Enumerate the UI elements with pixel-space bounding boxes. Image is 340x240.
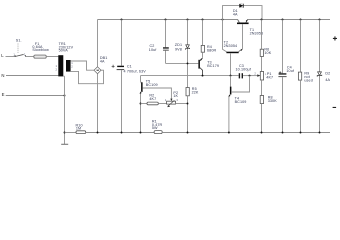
wire earth branch from transformer [63, 76, 64, 144]
capacitor C1 4700uf 63V [112, 20, 147, 133]
resistor R5 22K [186, 87, 199, 132]
wire bridge minus down to bottom rail [97, 74, 99, 133]
svg-text:2N3054: 2N3054 [224, 44, 238, 48]
node junction D2 top [319, 19, 321, 21]
switch S1 [15, 38, 25, 56]
transistor T2 2N3054 [223, 20, 243, 76]
node junction bridge minus bottom [97, 132, 99, 134]
wire bottom rail right segment [162, 132, 330, 134]
fuse F1 0.64A Slowblow [32, 42, 49, 58]
svg-text:22K: 22K [192, 91, 199, 95]
ground earth symbol [61, 143, 68, 145]
wire top rail raw DC segment [98, 19, 238, 21]
pin 1 of S1 [13, 52, 15, 56]
svg-text:10K: 10K [264, 51, 271, 55]
capacitor C2 10uf [149, 20, 169, 64]
svg-text:1K: 1K [173, 94, 178, 98]
node junction T3 collector on control net [202, 75, 204, 77]
svg-text:10.100µf: 10.100µf [236, 67, 252, 71]
svg-text:4K7: 4K7 [149, 97, 156, 101]
pin 2 of S1 [24, 52, 26, 56]
node junction ZD1 top [187, 19, 189, 21]
wire bottom rail left segment [65, 132, 77, 134]
transformer TR1 230/12V 50VA primary winding [58, 42, 73, 77]
node junction T4 base branch [249, 75, 251, 77]
resistor R2 4K7 [141, 93, 167, 104]
node junction P2 R5 ground leg [187, 103, 189, 105]
node L terminal label [1, 53, 4, 58]
node junction ZD1 R5 T3 base [187, 62, 189, 64]
node junction D1 left top rail [222, 19, 224, 21]
node junction R8 bottom [261, 132, 263, 134]
svg-text:1M: 1M [76, 127, 81, 131]
wire L input to switch [6, 56, 16, 58]
svg-text:680R: 680R [207, 49, 217, 53]
svg-text:BC109: BC109 [235, 100, 247, 104]
resistor R4 680R [201, 20, 216, 58]
wire T5 base to P2 wiper [143, 88, 172, 100]
svg-text:4A: 4A [100, 59, 105, 63]
wire bridge plus to top rail [97, 20, 99, 67]
svg-text:D2: D2 [325, 71, 330, 75]
node junction C4 top [282, 19, 284, 21]
node junction C2 top [165, 19, 167, 21]
wire N input to transformer primary [6, 75, 58, 77]
svg-text:9V8: 9V8 [175, 47, 182, 51]
node junction C1 bottom [121, 132, 123, 134]
wire C2 bottom to T3 base [166, 62, 199, 64]
node junction D1 right top rail [261, 19, 263, 21]
transistor T1 2N3055 [237, 20, 263, 49]
node E terminal label [2, 92, 5, 97]
node output plus terminal [333, 36, 337, 40]
wire P2 right to R5 bottom [176, 103, 188, 105]
svg-text:S1.: S1. [16, 38, 22, 42]
pin numbers primary [56, 64, 58, 71]
svg-text:4A: 4A [233, 12, 238, 16]
wire top rail output segment [247, 19, 330, 21]
node junction C4 bottom [282, 132, 284, 134]
resistor R9 not used [298, 20, 312, 133]
zener diode ZD1 9V8 [175, 20, 190, 88]
node junction R9 top [300, 19, 302, 21]
svg-text:4 700uf, 63V: 4 700uf, 63V [124, 69, 147, 73]
potentiometer P2 1K [165, 91, 179, 107]
node junction R4 top [202, 19, 204, 21]
svg-text:4A: 4A [325, 78, 330, 82]
resistor R8 330K [260, 96, 277, 133]
svg-text:Slowblow: Slowblow [32, 48, 49, 52]
svg-text:4K7: 4K7 [266, 76, 273, 80]
wire E input to earth column [6, 95, 65, 97]
node junction E wire earth column [64, 95, 66, 97]
svg-text:5W: 5W [152, 126, 158, 130]
wire T4 base to wiper net [232, 76, 250, 92]
pin numbers secondary [71, 61, 73, 68]
svg-text:E: E [2, 92, 5, 97]
wiper arrow into P2 [170, 99, 172, 102]
wire control net from T5 collector to C3 [141, 75, 239, 77]
diode D1 4A bypass [223, 4, 263, 20]
resistor R6 10K [260, 20, 272, 72]
node output minus terminal [333, 107, 337, 108]
svg-text:used: used [304, 79, 312, 83]
transformer TR1 secondary winding [66, 60, 71, 72]
node junction T4 emitter bottom [228, 132, 230, 134]
wire fuse to transformer primary [46, 56, 58, 58]
potentiometer P1 4K7 [260, 72, 273, 96]
node junction R9 bottom [300, 132, 302, 134]
resistor R1 0.47R 5W [152, 120, 163, 134]
svg-text:N: N [1, 73, 4, 78]
node N terminal label [1, 73, 4, 78]
bridge rectifier DB1 4A [94, 56, 107, 74]
capacitor C4 10uf [278, 20, 295, 133]
node junction T5 emitter R2 [140, 103, 142, 105]
transistor T3 BC179 [198, 58, 219, 75]
wire secondary top to bridge left [71, 61, 94, 70]
svg-text:10uf: 10uf [149, 48, 158, 52]
wire bottom rail middle segment [86, 132, 154, 134]
wiper arrow into P1 [257, 74, 261, 76]
wire switch to fuse [26, 56, 34, 58]
node junction T5 emitter bottom [140, 132, 142, 134]
svg-text:10uf: 10uf [286, 69, 295, 73]
transistor T4 BC109 [229, 76, 247, 133]
wire secondary bottom to bridge right [71, 70, 104, 84]
node junction earth bottom rail [64, 132, 66, 134]
svg-text:C1: C1 [127, 65, 132, 69]
svg-text:BC109: BC109 [146, 83, 158, 87]
resistor R10 1M [76, 124, 86, 134]
svg-text:BC179: BC179 [207, 64, 219, 68]
transistor T5 BC109 [140, 76, 158, 133]
svg-text:330K: 330K [268, 99, 278, 103]
capacitor C3 10.100uf [236, 64, 258, 78]
node junction R5 bottom [187, 132, 189, 134]
pin 2 of P1 [254, 72, 256, 76]
node junction D2 bottom [319, 132, 321, 134]
zener diode D2 4A [317, 20, 330, 133]
node junction T2 base on control net [230, 75, 232, 77]
svg-text:50VA: 50VA [59, 49, 69, 53]
node junction C1 top [121, 19, 123, 21]
